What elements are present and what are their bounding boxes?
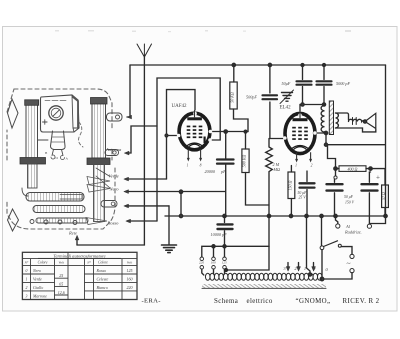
svg-text:400 Ω: 400 Ω: [348, 167, 358, 172]
pictorial connecting wires: [22, 140, 110, 196]
terminal mains AC: [322, 254, 354, 279]
pictorial tuning-gang terminal lug: [107, 113, 123, 121]
pictorial bell pin labels: [45, 151, 69, 161]
wire UAF42 plate node y=131.6: [212, 130, 248, 133]
svg-text:pF: pF: [220, 169, 226, 174]
autotransformer L1 winding: [202, 273, 326, 288]
svg-text:~: ~: [346, 259, 350, 268]
pictorial dashed link wire: [79, 122, 83, 147]
svg-text:125: 125: [222, 261, 227, 265]
terminal Al Raddrizz right: [367, 216, 385, 228]
svg-text:5000 pF: 5000 pF: [336, 81, 351, 86]
svg-text:Verde: Verde: [109, 174, 119, 179]
resistor R3 2M grid leak: [266, 139, 284, 217]
wire filter to plate node: [328, 145, 336, 169]
wire EL42 plate to transformer: [313, 131, 327, 134]
capacitor C3 500pF coupling: [263, 65, 278, 139]
pictorial terminal strip rod: [36, 218, 88, 223]
pictorial secondary coil bar: [33, 206, 85, 213]
pictorial blade lead rosso: [86, 218, 107, 225]
wire plate node feedback line: [324, 65, 385, 216]
tap arrow 1: [312, 263, 316, 272]
wire switch to coil end: [320, 250, 324, 281]
wire bus drop to tap line: [268, 216, 270, 246]
terminal Al Raddrizz left: [336, 216, 340, 228]
caption schema elettrico: [214, 298, 380, 305]
svg-text:20000: 20000: [205, 169, 216, 174]
wire row to ground: [124, 204, 169, 208]
svg-text:125: 125: [127, 268, 133, 273]
svg-text:N°: N°: [24, 261, 29, 265]
svg-text:2: 2: [311, 164, 313, 168]
svg-text:RICEV. R 2: RICEV. R 2: [343, 298, 380, 305]
wire Rosso row: [126, 219, 157, 223]
pictorial rectifier meter box: [41, 95, 80, 132]
pictorial antenna coil bar: [26, 193, 84, 202]
svg-text:500pF: 500pF: [246, 95, 257, 100]
tap 160: [212, 246, 216, 274]
svg-text:Rete: Rete: [68, 231, 77, 236]
svg-text:Giallo: Giallo: [33, 285, 43, 290]
svg-text:1: 1: [295, 164, 297, 168]
wire antenna terminal link: [125, 126, 158, 155]
svg-text:220: 220: [199, 261, 204, 265]
svg-text:Rosso: Rosso: [96, 268, 107, 273]
tap arrow 3: [286, 263, 290, 272]
svg-text:8: 8: [200, 164, 202, 168]
svg-text:160: 160: [211, 261, 216, 265]
svg-text:2: 2: [25, 286, 27, 290]
svg-text:N°: N°: [86, 261, 91, 265]
svg-text:Colore: Colore: [98, 261, 108, 265]
tube U2 EL42 envelope: [283, 111, 317, 163]
svg-text:Terminali autotrasformatore: Terminali autotrasformatore: [53, 253, 105, 258]
tube U1 UAF42 envelope: [177, 110, 212, 162]
capacitor C5 50uF bypass: [297, 65, 312, 105]
pictorial dial cord diamond upper: [8, 99, 19, 128]
speaker LS1: [336, 113, 376, 132]
svg-text:Marrone: Marrone: [32, 293, 47, 298]
resistor R5 57ohm: [382, 185, 389, 216]
pictorial coil form right cylinder: [87, 98, 110, 222]
pictorial lug with hole: [101, 201, 117, 208]
wire Rete drop: [75, 236, 79, 246]
svg-text:UAF42: UAF42: [172, 104, 188, 109]
tap arrow 2: [297, 263, 301, 272]
svg-text:1: 1: [187, 164, 189, 168]
svg-text:Bianco: Bianco: [97, 285, 108, 290]
svg-text:+: +: [313, 267, 316, 273]
pictorial terminal screws: [30, 220, 77, 225]
svg-text:Verde: Verde: [33, 277, 42, 282]
capacitor C8 50uF 150V input filter: [362, 172, 378, 224]
pictorial dashed outline: [7, 89, 115, 229]
svg-text:Nero: Nero: [32, 268, 41, 273]
svg-text:50 KΩ: 50 KΩ: [230, 92, 235, 103]
svg-text:10000 pF: 10000 pF: [211, 232, 228, 237]
svg-text:Nero: Nero: [109, 187, 120, 192]
svg-text:500 KΩ: 500 KΩ: [242, 155, 247, 168]
svg-text:25 V: 25 V: [299, 196, 307, 200]
antenna: [137, 44, 152, 57]
switch S1 mains: [320, 216, 352, 254]
svg-text:50μF: 50μF: [282, 81, 291, 86]
svg-text:+: +: [376, 174, 380, 182]
wire B+ tap from bus: [307, 216, 312, 276]
wire inner anode loop box UAF42: [167, 90, 196, 179]
svg-text:50 μF: 50 μF: [298, 191, 308, 195]
pictorial tuning shaft left cylinder: [20, 100, 46, 188]
svg-text:Schema: Schema: [214, 298, 238, 305]
wire antenna mast down to mains Rete: [77, 57, 144, 245]
svg-text:Colore: Colore: [38, 261, 48, 265]
svg-text:57 Ω: 57 Ω: [381, 192, 386, 200]
pictorial blade lead nero: [87, 185, 110, 193]
tap 220: [200, 257, 204, 275]
table frame autotrasformatore: [22, 252, 137, 299]
node rail junctions: [232, 63, 325, 66]
pictorial blade lead verde: [87, 177, 110, 185]
wire top common rail y=65: [130, 64, 386, 66]
svg-text:220: 220: [127, 285, 133, 290]
svg-text:160: 160: [127, 277, 133, 282]
resistor R6 150ohm cathode: [288, 166, 295, 217]
svg-text:0: 0: [25, 269, 27, 273]
svg-text:Celeste: Celeste: [97, 277, 109, 282]
resistor R1 50K: [230, 65, 248, 132]
svg-text:150 V: 150 V: [345, 201, 355, 205]
capacitor C 20000pF: [217, 132, 234, 216]
svg-text:EL42: EL42: [280, 106, 292, 111]
capacitor C4 10000pF: [218, 216, 233, 246]
pictorial dial cord diamond lower: [8, 209, 19, 231]
svg-text:3: 3: [25, 294, 27, 298]
svg-text:1: 1: [304, 266, 306, 271]
wire EL42 anode top link: [300, 103, 326, 111]
svg-text:25: 25: [59, 273, 63, 278]
svg-text:1: 1: [25, 278, 27, 282]
resistor R4 400ohm filter: [334, 166, 372, 172]
svg-text:150 Ω: 150 Ω: [288, 180, 293, 190]
wire UAF42 grid lead left: [165, 134, 177, 137]
trimmer capacitor: [280, 90, 294, 104]
svg-text:65: 65: [59, 282, 63, 287]
wire grid box outer around UAF42: [157, 78, 220, 221]
svg-text:50 μF: 50 μF: [344, 195, 354, 199]
svg-text:Al: Al: [345, 224, 351, 229]
wire main bus y=216: [165, 215, 386, 217]
ground: [162, 206, 177, 253]
svg-text:Raddrizz.: Raddrizz.: [344, 230, 362, 235]
wire rail left drop to tuning-gang lug: [127, 65, 132, 119]
node bus junctions: [179, 214, 387, 217]
wire node 181 drop to bus: [180, 192, 182, 216]
capacitor C6 5000pF: [317, 65, 332, 105]
svg-text:-ERA-: -ERA-: [142, 298, 161, 305]
wire heater riser to tap 125: [225, 246, 270, 271]
wire heater tap line: [202, 245, 269, 257]
capacitor C9 50uF 25V cathode: [300, 171, 315, 216]
svg-text:“GNOMO„: “GNOMO„: [296, 298, 331, 305]
capacitor C7 50uF 150V filter: [327, 169, 343, 216]
tap 125: [223, 246, 227, 274]
transformer T1 output: [321, 101, 338, 135]
pictorial antenna terminal lug: [105, 150, 119, 156]
wire Verde row: [124, 177, 167, 181]
pictorial output bell below box: [51, 131, 66, 160]
svg-text:MΩ: MΩ: [273, 167, 281, 172]
caption ERA: [142, 298, 161, 305]
svg-text:elettrico: elettrico: [247, 298, 273, 305]
wire Nero heater row: [124, 190, 225, 194]
wire 400ohm right to 57ohm: [371, 169, 386, 185]
resistor R2 500K: [242, 132, 269, 205]
